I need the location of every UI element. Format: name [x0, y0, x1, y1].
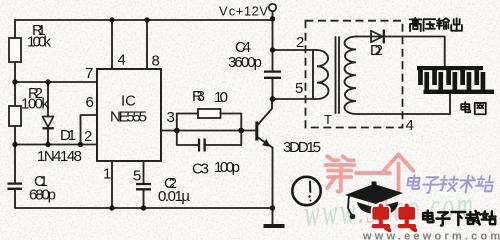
svg-text:100p: 100p	[214, 159, 240, 176]
svg-text:IC: IC	[121, 93, 136, 110]
svg-text:7: 7	[85, 65, 93, 82]
svg-text:C3: C3	[192, 161, 209, 178]
svg-text:1: 1	[103, 166, 111, 183]
svg-text:www.eeworm.com: www.eeworm.com	[362, 231, 500, 240]
svg-text:3: 3	[167, 109, 175, 126]
svg-text:100k: 100k	[21, 96, 50, 113]
svg-text:6: 6	[86, 94, 94, 111]
svg-text:5: 5	[295, 80, 303, 97]
svg-text:4: 4	[118, 52, 126, 69]
svg-text:3600p: 3600p	[228, 54, 262, 71]
svg-text:10: 10	[214, 89, 228, 106]
svg-text:2: 2	[84, 128, 92, 145]
svg-text:0.01µ: 0.01µ	[158, 188, 190, 205]
svg-text:8: 8	[152, 53, 160, 70]
svg-text:D2: D2	[370, 42, 383, 59]
svg-text:4: 4	[406, 117, 414, 134]
svg-text:2: 2	[296, 34, 304, 51]
svg-text:1N4148: 1N4148	[37, 148, 82, 165]
svg-text:100k: 100k	[27, 34, 52, 51]
svg-text:3DD15: 3DD15	[283, 139, 321, 156]
svg-text:680p: 680p	[29, 187, 56, 204]
svg-text:NE555: NE555	[110, 109, 147, 126]
svg-text:V​c+12V: V​c+12V	[219, 4, 268, 19]
svg-text:D1: D1	[60, 127, 76, 144]
svg-text:T: T	[324, 112, 332, 127]
svg-text:R3: R3	[192, 88, 205, 105]
svg-text:5: 5	[133, 168, 141, 185]
